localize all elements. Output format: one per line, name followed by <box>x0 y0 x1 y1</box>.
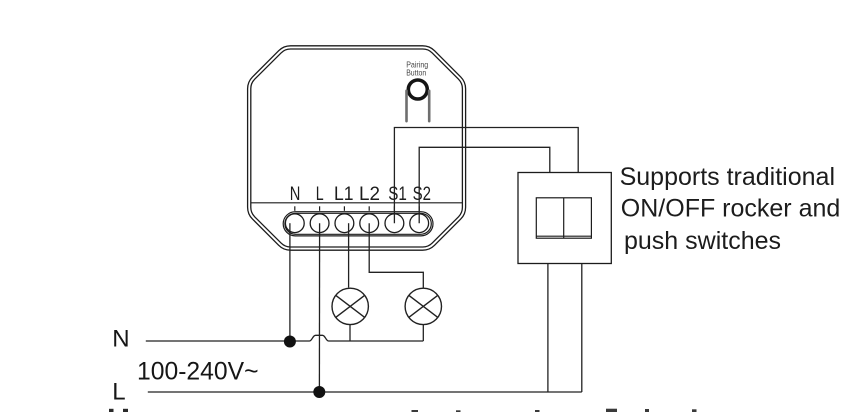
svg-text:push switches: push switches <box>624 227 781 255</box>
N supply line with hop over L wire <box>146 335 424 341</box>
terminal area separator line <box>251 202 463 204</box>
wire N terminal down to N supply line <box>289 223 291 341</box>
svg-text:100-240V~: 100-240V~ <box>137 359 259 386</box>
svg-text:Button: Button <box>406 67 426 77</box>
svg-text:Supports traditional: Supports traditional <box>620 163 835 191</box>
wire lamp 2 bottom to N line <box>422 325 424 341</box>
terminal strip <box>283 212 433 236</box>
wire S1 terminal to wall switch <box>394 128 578 224</box>
wire wall switch return right to L line <box>581 264 583 393</box>
wire S2 terminal to wall switch <box>419 147 550 223</box>
pairing button label <box>406 59 428 77</box>
svg-text:L: L <box>112 379 125 406</box>
svg-text:N: N <box>290 183 301 205</box>
pairing button SW1 (ring with legs) <box>405 80 430 123</box>
terminal L2 <box>360 214 379 233</box>
terminal pin ticks <box>295 206 419 211</box>
terminal N <box>285 214 304 233</box>
wall switch SW2 (double rocker) <box>518 173 611 264</box>
svg-text:L1: L1 <box>334 183 354 205</box>
junction dot on L line <box>313 386 325 398</box>
svg-text:L2: L2 <box>359 183 380 205</box>
cropped text fragments at bottom edge <box>109 409 697 412</box>
svg-text:ON/OFF rocker and: ON/OFF rocker and <box>621 194 841 222</box>
lamp LA2 (circle with X) <box>405 288 441 324</box>
wire L1 terminal to lamp 1 <box>348 223 350 287</box>
wire L terminal down to L supply line <box>318 223 320 392</box>
terminal S2 <box>410 214 429 233</box>
lamp LA1 (circle with X) <box>332 288 368 324</box>
svg-text:N: N <box>112 326 129 353</box>
junction dot on N line <box>284 336 296 348</box>
terminal L <box>310 214 329 233</box>
terminal S1 <box>385 214 404 233</box>
wire wall switch return left to L line <box>547 264 549 393</box>
annotation: supports traditional switches <box>620 163 841 255</box>
L supply line <box>148 391 582 393</box>
terminal L1 <box>335 214 354 233</box>
smart switch module U1 body (rounded octagon, double outline) <box>248 46 466 250</box>
svg-text:S1: S1 <box>388 183 407 205</box>
svg-text:L: L <box>316 183 324 205</box>
wire L2 terminal to lamp 2 <box>369 223 423 287</box>
wire lamp 1 bottom to N line <box>349 325 351 341</box>
svg-text:S2: S2 <box>413 183 431 205</box>
